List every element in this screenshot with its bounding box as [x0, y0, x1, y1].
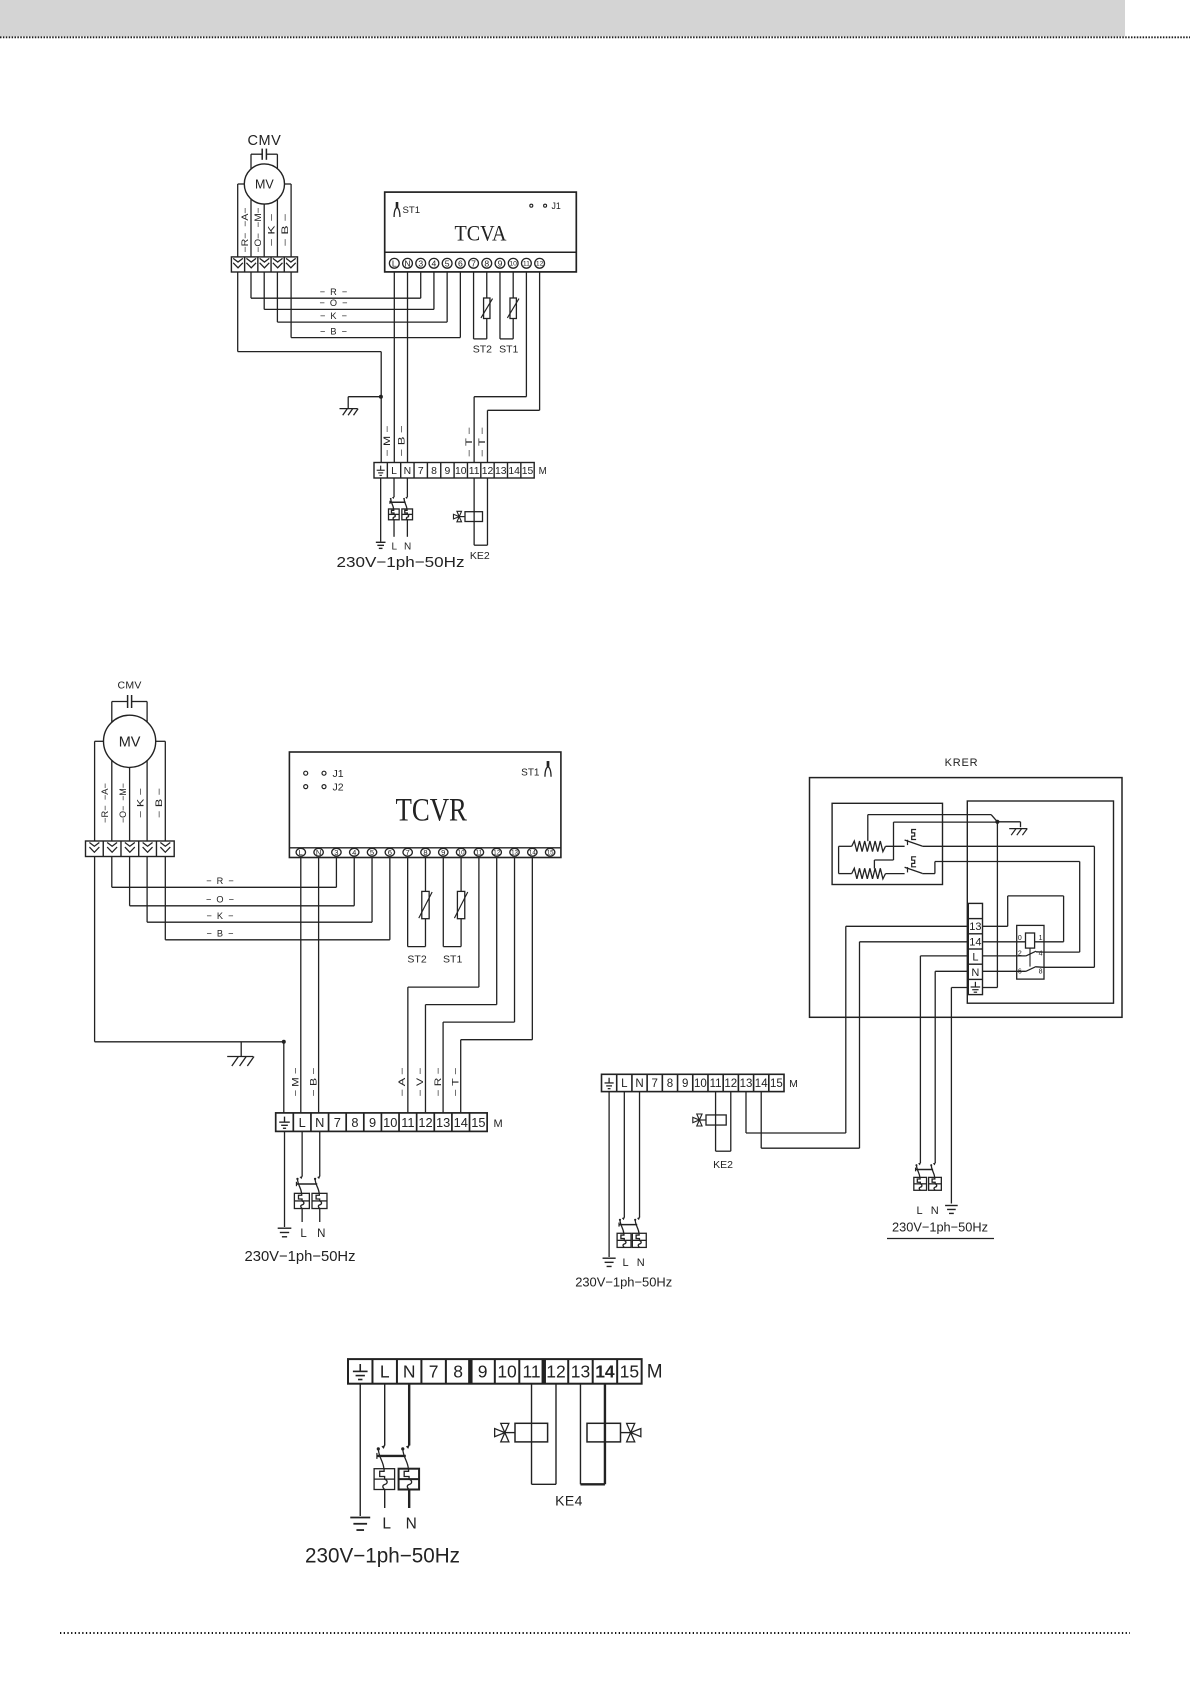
svg-text:10: 10	[509, 261, 517, 268]
svg-text:6: 6	[1018, 969, 1022, 976]
svg-text:MV: MV	[255, 177, 274, 191]
svg-text:8: 8	[351, 1115, 358, 1130]
svg-text:12: 12	[546, 1362, 565, 1382]
svg-text:− B −: − B −	[320, 326, 347, 336]
svg-text:N: N	[635, 1078, 643, 1090]
svg-text:J2: J2	[333, 781, 344, 793]
svg-text:10: 10	[497, 1362, 517, 1382]
svg-text:− T −: − T −	[464, 427, 474, 457]
svg-text:12: 12	[536, 261, 544, 268]
svg-text:5: 5	[370, 848, 374, 857]
svg-text:15: 15	[471, 1115, 485, 1130]
svg-text:− R −: − R −	[206, 876, 234, 886]
svg-text:L: L	[916, 1205, 922, 1217]
svg-text:7: 7	[429, 1362, 439, 1382]
svg-text:10: 10	[383, 1115, 397, 1130]
svg-text:15: 15	[620, 1362, 639, 1382]
svg-text:9: 9	[478, 1362, 488, 1382]
svg-text:M: M	[789, 1078, 798, 1090]
svg-text:12: 12	[482, 466, 494, 477]
svg-text:9: 9	[369, 1115, 376, 1130]
svg-text:CMV: CMV	[248, 133, 282, 149]
svg-text:5: 5	[445, 258, 450, 268]
svg-text:− B −: − B −	[308, 1068, 318, 1097]
svg-text:11: 11	[522, 1362, 540, 1382]
svg-text:L: L	[380, 1362, 390, 1382]
svg-text:KE4: KE4	[555, 1493, 583, 1509]
svg-text:− A −: − A −	[397, 1068, 407, 1097]
svg-text:− K −: − K −	[136, 788, 146, 818]
svg-text:J1: J1	[333, 768, 344, 780]
svg-text:L: L	[392, 258, 397, 268]
svg-text:6: 6	[388, 848, 392, 857]
svg-text:KE2: KE2	[713, 1159, 733, 1171]
svg-text:13: 13	[511, 850, 518, 857]
svg-text:14: 14	[508, 466, 520, 477]
svg-text:13: 13	[436, 1115, 450, 1130]
svg-text:7: 7	[418, 466, 424, 477]
svg-text:− O −: − O −	[319, 298, 347, 308]
svg-text:11: 11	[469, 466, 480, 477]
svg-text:TCVR: TCVR	[395, 793, 467, 829]
svg-text:TCVA: TCVA	[455, 221, 507, 245]
svg-text:7: 7	[406, 848, 410, 857]
svg-text:− B −: − B −	[397, 426, 407, 457]
svg-text:MV: MV	[119, 735, 141, 751]
svg-text:3: 3	[418, 258, 423, 268]
svg-text:− K −: − K −	[320, 311, 347, 321]
svg-text:− M −: − M −	[382, 426, 392, 457]
svg-text:3: 3	[334, 848, 338, 857]
svg-text:8: 8	[667, 1078, 673, 1090]
svg-text:M: M	[647, 1362, 663, 1383]
svg-text:13: 13	[571, 1362, 590, 1382]
svg-text:8: 8	[1039, 969, 1043, 976]
svg-text:L: L	[299, 848, 303, 857]
svg-text:0: 0	[1018, 935, 1022, 942]
svg-text:230V−1ph−50Hz: 230V−1ph−50Hz	[575, 1275, 672, 1290]
svg-text:− V −: − V −	[415, 1068, 425, 1097]
svg-text:− K −: − K −	[206, 911, 233, 921]
svg-text:KE2: KE2	[470, 550, 490, 562]
svg-text:ST1: ST1	[443, 953, 462, 965]
svg-text:8: 8	[431, 466, 437, 477]
svg-text:− K −: − K −	[267, 214, 277, 247]
svg-text:4: 4	[432, 258, 437, 268]
svg-text:L: L	[972, 952, 978, 964]
svg-text:11: 11	[523, 261, 530, 268]
svg-text:− R −: − R −	[433, 1068, 443, 1097]
svg-text:− T −: − T −	[451, 1068, 461, 1097]
svg-text:L: L	[621, 1078, 628, 1090]
svg-text:11: 11	[710, 1078, 722, 1090]
svg-text:N: N	[931, 1205, 939, 1217]
svg-text:− R −: − R −	[320, 287, 348, 297]
svg-text:12: 12	[724, 1078, 737, 1090]
svg-text:230V−1ph−50Hz: 230V−1ph−50Hz	[245, 1248, 356, 1265]
svg-text:14: 14	[969, 936, 981, 948]
svg-text:9: 9	[445, 466, 451, 477]
svg-text:N: N	[317, 1228, 325, 1240]
svg-text:14: 14	[454, 1115, 468, 1130]
svg-text:9: 9	[682, 1078, 688, 1090]
svg-text:13: 13	[495, 466, 507, 477]
svg-text:L: L	[391, 466, 397, 477]
svg-text:1: 1	[1039, 935, 1043, 942]
svg-text:L: L	[392, 541, 398, 552]
svg-text:12: 12	[493, 850, 500, 857]
svg-text:J1: J1	[552, 201, 561, 211]
svg-text:ST2: ST2	[473, 343, 492, 355]
svg-text:L: L	[299, 1115, 306, 1130]
svg-text:ST1: ST1	[403, 205, 421, 216]
svg-text:8: 8	[453, 1362, 463, 1382]
svg-text:M: M	[539, 466, 547, 477]
svg-text:230V−1ph−50Hz: 230V−1ph−50Hz	[305, 1545, 460, 1568]
svg-text:ST1: ST1	[499, 343, 518, 355]
svg-text:14: 14	[595, 1362, 615, 1382]
svg-text:N: N	[404, 466, 412, 477]
svg-text:14: 14	[755, 1078, 768, 1090]
svg-text:N: N	[971, 967, 979, 979]
svg-text:− B −: − B −	[280, 214, 290, 247]
svg-text:7: 7	[471, 258, 476, 268]
svg-text:− B −: − B −	[206, 928, 233, 938]
svg-text:−O− −M−: −O− −M−	[118, 783, 128, 823]
svg-text:6: 6	[458, 258, 463, 268]
svg-text:8: 8	[423, 848, 427, 857]
svg-text:−R− −A−: −R− −A−	[100, 783, 110, 823]
svg-text:N: N	[316, 848, 321, 857]
svg-text:− T −: − T −	[477, 427, 487, 457]
svg-text:M: M	[494, 1118, 503, 1130]
svg-text:L: L	[382, 1516, 391, 1533]
svg-text:9: 9	[441, 848, 445, 857]
svg-text:−R− −A−: −R− −A−	[240, 208, 250, 253]
svg-text:ST2: ST2	[407, 953, 426, 965]
svg-text:4: 4	[352, 848, 356, 857]
svg-text:− O −: − O −	[206, 894, 234, 904]
svg-text:− B −: − B −	[154, 788, 164, 818]
svg-text:13: 13	[969, 921, 981, 933]
svg-text:230V−1ph−50Hz: 230V−1ph−50Hz	[337, 554, 465, 571]
svg-text:N: N	[404, 258, 410, 268]
svg-text:7: 7	[652, 1078, 658, 1090]
svg-text:15: 15	[547, 850, 554, 857]
svg-text:N: N	[637, 1257, 645, 1269]
svg-text:N: N	[404, 541, 411, 552]
svg-text:11: 11	[401, 1115, 414, 1130]
svg-text:10: 10	[694, 1078, 707, 1090]
svg-text:12: 12	[418, 1115, 432, 1130]
svg-text:10: 10	[455, 466, 467, 477]
svg-text:8: 8	[484, 258, 489, 268]
svg-text:15: 15	[522, 466, 534, 477]
svg-text:15: 15	[770, 1078, 783, 1090]
svg-text:KRER: KRER	[945, 757, 979, 769]
svg-text:10: 10	[458, 850, 465, 857]
svg-text:N: N	[315, 1115, 324, 1130]
svg-text:N: N	[403, 1362, 416, 1382]
svg-text:ST1: ST1	[521, 767, 540, 778]
svg-text:7: 7	[334, 1115, 341, 1130]
svg-text:− M −: − M −	[290, 1068, 300, 1097]
svg-text:CMV: CMV	[117, 680, 141, 692]
svg-text:230V−1ph−50Hz: 230V−1ph−50Hz	[892, 1220, 988, 1235]
svg-text:N: N	[406, 1516, 417, 1533]
svg-text:−O− −M−: −O− −M−	[253, 208, 263, 253]
svg-text:L: L	[300, 1228, 307, 1240]
svg-text:L: L	[622, 1257, 628, 1269]
svg-text:9: 9	[498, 258, 503, 268]
svg-text:11: 11	[476, 850, 483, 857]
svg-text:14: 14	[529, 850, 536, 857]
svg-text:13: 13	[740, 1078, 753, 1090]
